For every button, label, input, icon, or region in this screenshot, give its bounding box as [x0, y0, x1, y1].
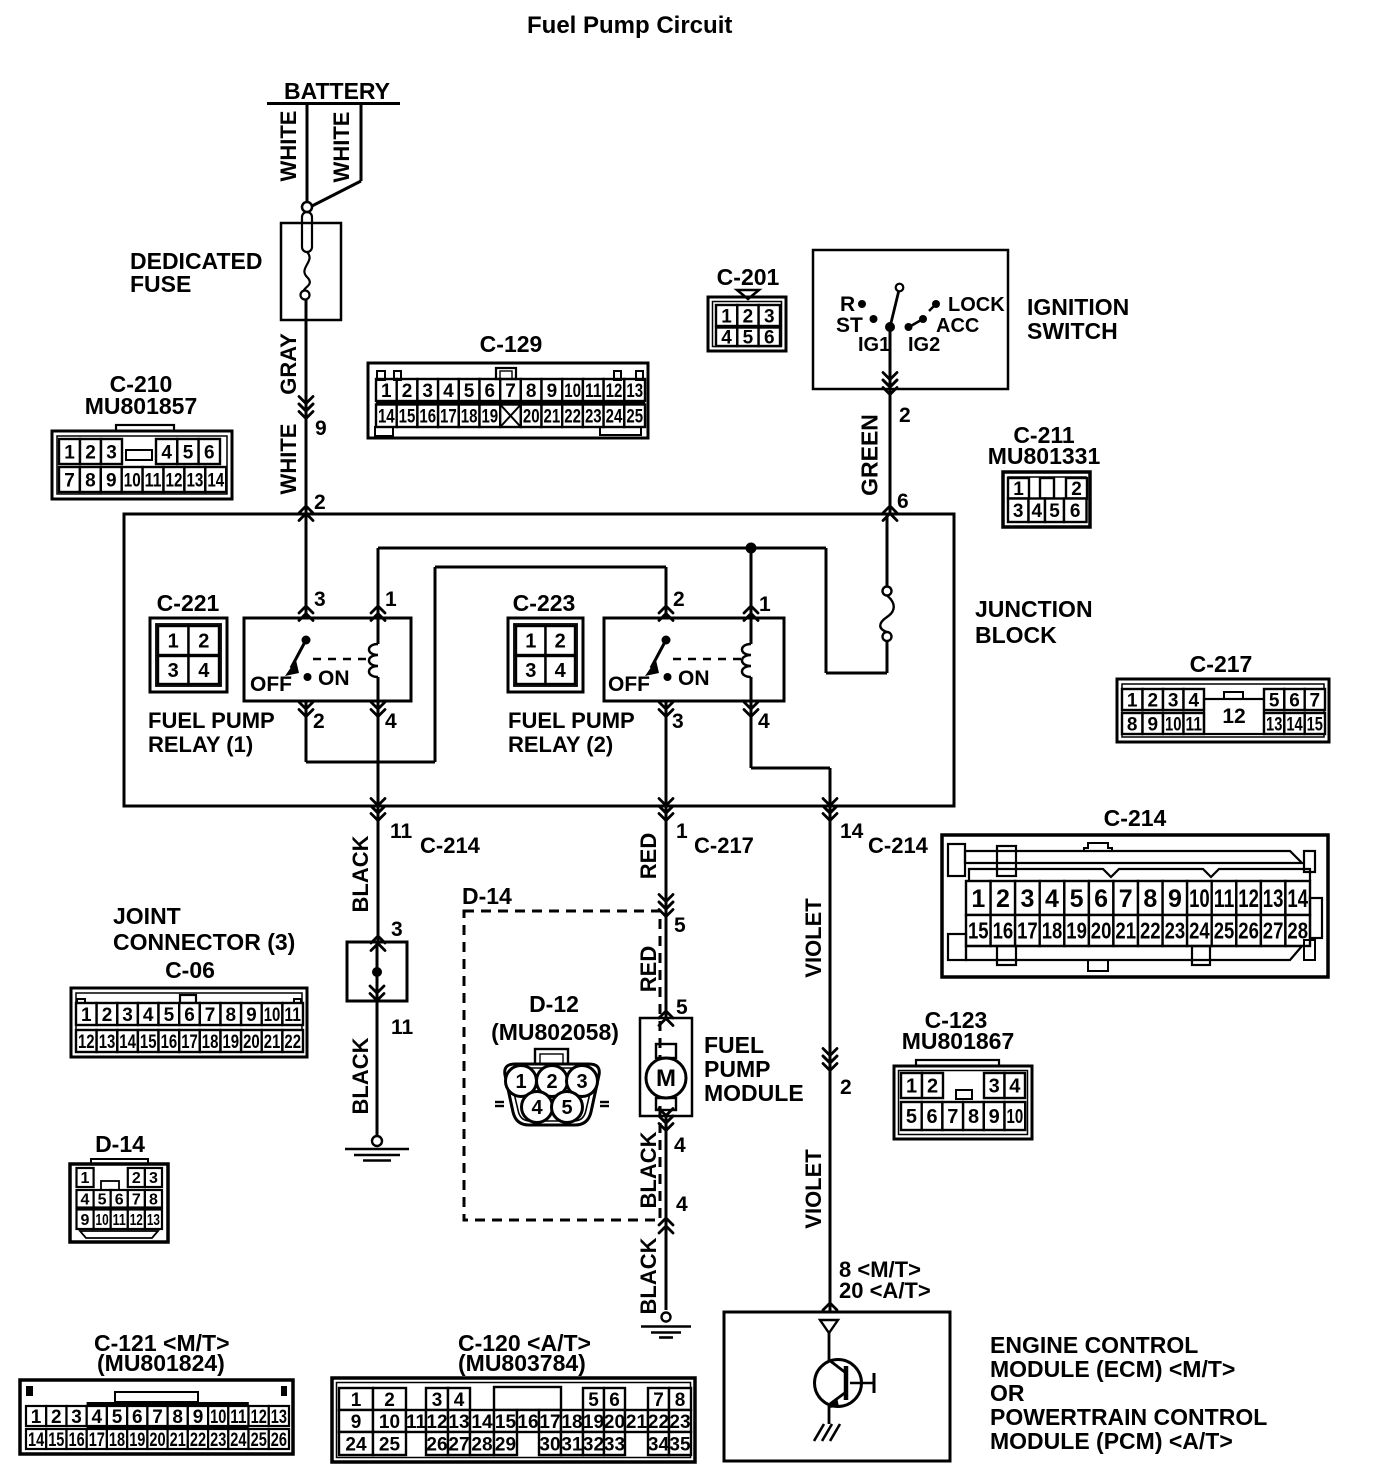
svg-text:ENGINE CONTROL: ENGINE CONTROL — [990, 1332, 1198, 1358]
svg-text:C-214: C-214 — [868, 833, 929, 858]
svg-text:13: 13 — [1263, 885, 1284, 913]
svg-text:4: 4 — [443, 381, 454, 402]
svg-text:21: 21 — [170, 1430, 187, 1451]
svg-text:3: 3 — [576, 1071, 587, 1093]
svg-text:10: 10 — [124, 470, 141, 491]
svg-text:1: 1 — [168, 631, 179, 653]
svg-text:28: 28 — [471, 1434, 492, 1455]
svg-text:BLACK: BLACK — [348, 1037, 373, 1114]
svg-text:11: 11 — [113, 1212, 126, 1229]
svg-text:5: 5 — [183, 442, 194, 463]
svg-text:R: R — [840, 293, 855, 316]
svg-text:11: 11 — [406, 1412, 427, 1433]
svg-text:22: 22 — [648, 1412, 669, 1433]
svg-text:33: 33 — [604, 1434, 625, 1455]
svg-text:2: 2 — [673, 588, 685, 611]
svg-text:2: 2 — [555, 631, 566, 653]
svg-text:12: 12 — [130, 1212, 143, 1229]
svg-text:1: 1 — [759, 593, 771, 616]
svg-text:16: 16 — [517, 1412, 538, 1433]
svg-text:(MU803784): (MU803784) — [458, 1350, 586, 1376]
svg-text:2: 2 — [1148, 690, 1159, 711]
svg-text:11: 11 — [1186, 714, 1203, 735]
svg-text:23: 23 — [669, 1412, 690, 1433]
svg-text:26: 26 — [271, 1430, 287, 1451]
svg-text:1: 1 — [676, 820, 688, 843]
svg-text:FUEL: FUEL — [704, 1032, 764, 1058]
svg-text:11: 11 — [391, 1016, 414, 1039]
svg-text:8: 8 — [526, 381, 537, 402]
svg-text:6: 6 — [485, 381, 496, 402]
svg-text:BLACK: BLACK — [636, 1131, 661, 1208]
svg-text:5: 5 — [464, 381, 475, 402]
svg-text:3: 3 — [122, 1005, 133, 1026]
svg-text:17: 17 — [1017, 918, 1038, 944]
svg-text:JUNCTION: JUNCTION — [975, 596, 1093, 622]
svg-text:16: 16 — [993, 918, 1014, 944]
svg-text:15: 15 — [399, 407, 416, 428]
svg-text:WHITE: WHITE — [276, 424, 301, 495]
svg-text:5: 5 — [1269, 690, 1280, 711]
svg-text:4: 4 — [758, 710, 770, 733]
svg-text:16: 16 — [161, 1032, 178, 1053]
svg-text:24: 24 — [345, 1434, 367, 1455]
svg-text:6: 6 — [764, 328, 775, 349]
svg-text:RED: RED — [636, 833, 661, 879]
svg-text:C-217: C-217 — [1190, 651, 1253, 677]
svg-text:2: 2 — [132, 1170, 141, 1187]
svg-text:11: 11 — [1214, 885, 1235, 913]
svg-text:BATTERY: BATTERY — [284, 78, 390, 104]
svg-text:GREEN: GREEN — [856, 414, 882, 496]
svg-text:10: 10 — [1189, 885, 1210, 913]
svg-text:ACC: ACC — [936, 315, 979, 337]
svg-text:4: 4 — [1189, 690, 1200, 711]
svg-text:IG1: IG1 — [858, 334, 890, 356]
svg-text:3: 3 — [1013, 501, 1024, 522]
svg-text:8: 8 — [172, 1407, 183, 1428]
svg-text:31: 31 — [561, 1434, 583, 1455]
svg-text:24: 24 — [230, 1430, 247, 1451]
svg-text:3: 3 — [989, 1076, 1000, 1098]
svg-text:3: 3 — [168, 660, 179, 682]
svg-text:6: 6 — [1289, 690, 1300, 711]
svg-text:2: 2 — [102, 1005, 113, 1026]
svg-text:MU801867: MU801867 — [902, 1028, 1015, 1054]
svg-text:13: 13 — [271, 1407, 287, 1428]
svg-text:6: 6 — [184, 1005, 195, 1026]
svg-text:13: 13 — [99, 1032, 116, 1053]
svg-text:FUEL PUMP: FUEL PUMP — [148, 708, 275, 733]
svg-text:18: 18 — [1042, 918, 1063, 944]
svg-text:5: 5 — [676, 996, 688, 1019]
svg-text:D-14: D-14 — [95, 1131, 145, 1157]
svg-text:2: 2 — [743, 306, 754, 327]
svg-text:13: 13 — [626, 381, 643, 402]
svg-text:OR: OR — [990, 1380, 1025, 1406]
svg-text:10: 10 — [96, 1212, 109, 1229]
svg-text:4: 4 — [676, 1193, 688, 1216]
svg-text:2: 2 — [402, 381, 413, 402]
svg-text:7: 7 — [1310, 690, 1321, 711]
svg-text:1: 1 — [1127, 690, 1138, 711]
svg-text:RED: RED — [636, 946, 661, 992]
svg-text:5: 5 — [1070, 885, 1084, 913]
svg-text:10: 10 — [564, 381, 581, 402]
svg-text:7: 7 — [947, 1106, 958, 1128]
svg-text:9: 9 — [106, 470, 117, 491]
svg-text:(MU802058): (MU802058) — [491, 1019, 619, 1045]
svg-text:MU801331: MU801331 — [988, 443, 1101, 469]
svg-text:C-221: C-221 — [157, 590, 220, 616]
svg-text:IG2: IG2 — [908, 334, 940, 356]
svg-text:8: 8 — [675, 1390, 686, 1411]
svg-text:18: 18 — [109, 1430, 125, 1451]
svg-text:1: 1 — [971, 885, 985, 913]
svg-text:4: 4 — [454, 1390, 465, 1411]
svg-text:23: 23 — [1165, 918, 1186, 944]
svg-text:12: 12 — [1238, 885, 1259, 913]
svg-text:18: 18 — [461, 407, 478, 428]
svg-text:MU801857: MU801857 — [85, 393, 198, 419]
svg-text:14: 14 — [378, 407, 395, 428]
svg-text:M: M — [656, 1065, 676, 1092]
svg-text:11: 11 — [145, 470, 162, 491]
svg-text:5: 5 — [588, 1390, 599, 1411]
svg-text:21: 21 — [544, 407, 561, 428]
svg-text:22: 22 — [284, 1032, 301, 1053]
svg-text:3: 3 — [525, 660, 536, 682]
svg-text:20: 20 — [1091, 918, 1112, 944]
svg-text:35: 35 — [669, 1434, 691, 1455]
svg-text:19: 19 — [223, 1032, 240, 1053]
svg-text:15: 15 — [1307, 714, 1324, 735]
svg-text:10: 10 — [210, 1407, 226, 1428]
svg-text:15: 15 — [48, 1430, 65, 1451]
svg-text:4: 4 — [1045, 885, 1059, 913]
svg-text:3: 3 — [149, 1170, 158, 1187]
svg-text:14: 14 — [471, 1412, 493, 1433]
svg-text:10: 10 — [379, 1412, 400, 1433]
svg-text:D-14: D-14 — [462, 883, 512, 909]
svg-text:4: 4 — [1009, 1076, 1021, 1098]
svg-text:PUMP: PUMP — [704, 1056, 770, 1082]
svg-text:BLOCK: BLOCK — [975, 622, 1057, 648]
svg-text:VIOLET: VIOLET — [801, 898, 826, 978]
svg-text:C-06: C-06 — [165, 957, 215, 983]
svg-text:2: 2 — [996, 885, 1010, 913]
svg-text:1: 1 — [515, 1071, 526, 1093]
svg-text:12: 12 — [251, 1407, 267, 1428]
svg-text:29: 29 — [495, 1434, 516, 1455]
svg-text:5: 5 — [743, 328, 754, 349]
svg-text:OFF: OFF — [250, 673, 292, 696]
svg-text:1: 1 — [81, 1170, 90, 1187]
svg-text:12: 12 — [606, 381, 623, 402]
svg-text:26: 26 — [1238, 918, 1259, 944]
svg-text:6: 6 — [927, 1106, 938, 1128]
svg-text:VIOLET: VIOLET — [801, 1149, 826, 1229]
svg-text:IGNITION: IGNITION — [1027, 294, 1129, 320]
svg-text:7: 7 — [152, 1407, 163, 1428]
svg-text:C-129: C-129 — [480, 331, 543, 357]
svg-text:23: 23 — [585, 407, 602, 428]
svg-text:14: 14 — [1286, 714, 1303, 735]
svg-text:6: 6 — [1094, 885, 1108, 913]
svg-text:8: 8 — [968, 1106, 979, 1128]
svg-text:1: 1 — [351, 1390, 362, 1411]
svg-text:1: 1 — [721, 306, 732, 327]
svg-text:19: 19 — [129, 1430, 145, 1451]
svg-text:C-214: C-214 — [1104, 805, 1167, 831]
svg-text:2: 2 — [927, 1076, 938, 1098]
svg-text:9: 9 — [193, 1407, 204, 1428]
svg-text:24: 24 — [1189, 918, 1210, 944]
svg-text:3: 3 — [314, 588, 326, 611]
svg-text:JOINT: JOINT — [113, 903, 181, 929]
svg-text:7: 7 — [653, 1390, 664, 1411]
svg-text:6: 6 — [897, 490, 909, 513]
svg-text:14: 14 — [119, 1032, 136, 1053]
svg-text:11: 11 — [390, 820, 413, 843]
svg-text:7: 7 — [132, 1192, 141, 1209]
svg-text:3: 3 — [672, 710, 684, 733]
svg-text:C-214: C-214 — [420, 833, 481, 858]
svg-text:C-223: C-223 — [513, 590, 576, 616]
svg-text:22: 22 — [564, 407, 581, 428]
svg-text:3: 3 — [71, 1407, 82, 1428]
svg-text:1: 1 — [81, 1005, 92, 1026]
svg-text:1: 1 — [381, 381, 392, 402]
svg-text:5: 5 — [1049, 501, 1060, 522]
svg-text:11: 11 — [284, 1005, 301, 1026]
svg-text:23: 23 — [210, 1430, 226, 1451]
svg-text:3: 3 — [764, 306, 775, 327]
svg-text:2: 2 — [51, 1407, 62, 1428]
svg-text:2: 2 — [314, 491, 326, 514]
svg-text:6: 6 — [609, 1390, 620, 1411]
svg-text:3: 3 — [391, 918, 403, 941]
svg-text:4: 4 — [674, 1134, 686, 1157]
svg-text:10: 10 — [1007, 1106, 1024, 1128]
svg-text:2: 2 — [840, 1076, 852, 1099]
svg-text:MODULE (ECM) <M/T>: MODULE (ECM) <M/T> — [990, 1356, 1235, 1382]
svg-text:ON: ON — [318, 667, 350, 690]
svg-text:12: 12 — [166, 470, 183, 491]
svg-text:10: 10 — [1165, 714, 1182, 735]
svg-text:22: 22 — [190, 1430, 206, 1451]
svg-text:4: 4 — [1032, 501, 1043, 522]
svg-text:SWITCH: SWITCH — [1027, 318, 1118, 344]
svg-text:3: 3 — [1168, 690, 1179, 711]
svg-text:7: 7 — [1119, 885, 1133, 913]
svg-text:26: 26 — [426, 1434, 447, 1455]
svg-text:MODULE: MODULE — [704, 1080, 804, 1106]
svg-text:MODULE (PCM) <A/T>: MODULE (PCM) <A/T> — [990, 1428, 1233, 1454]
svg-text:25: 25 — [1214, 918, 1235, 944]
svg-text:C-201: C-201 — [717, 264, 780, 290]
svg-text:4: 4 — [531, 1097, 543, 1119]
svg-text:19: 19 — [481, 407, 498, 428]
svg-text:11: 11 — [585, 381, 602, 402]
svg-text:9: 9 — [1168, 885, 1182, 913]
svg-text:19: 19 — [1066, 918, 1087, 944]
svg-text:D-12: D-12 — [529, 991, 579, 1017]
svg-text:2: 2 — [1071, 479, 1082, 500]
svg-text:FUEL PUMP: FUEL PUMP — [508, 708, 635, 733]
svg-text:2: 2 — [198, 631, 209, 653]
svg-text:20: 20 — [149, 1430, 165, 1451]
svg-text:8: 8 — [1143, 885, 1157, 913]
svg-text:21: 21 — [1115, 918, 1136, 944]
svg-text:9: 9 — [246, 1005, 257, 1026]
svg-text:17: 17 — [440, 407, 457, 428]
svg-text:1: 1 — [525, 631, 536, 653]
svg-text:13: 13 — [1266, 714, 1282, 735]
svg-text:6: 6 — [132, 1407, 143, 1428]
svg-text:BLACK: BLACK — [636, 1237, 661, 1314]
svg-text:9: 9 — [1148, 714, 1159, 735]
svg-text:27: 27 — [1263, 918, 1284, 944]
svg-text:1: 1 — [1013, 479, 1024, 500]
svg-text:9: 9 — [315, 417, 327, 440]
svg-text:30: 30 — [539, 1434, 560, 1455]
svg-text:20: 20 — [604, 1412, 625, 1433]
svg-text:6: 6 — [204, 442, 215, 463]
svg-text:4: 4 — [385, 710, 397, 733]
svg-text:5: 5 — [906, 1106, 917, 1128]
svg-text:5: 5 — [164, 1005, 175, 1026]
svg-text:3: 3 — [432, 1390, 443, 1411]
svg-text:4: 4 — [198, 660, 210, 682]
svg-text:4: 4 — [92, 1407, 103, 1428]
svg-text:(MU801824): (MU801824) — [97, 1350, 225, 1376]
svg-text:14: 14 — [840, 820, 864, 843]
svg-text:22: 22 — [1140, 918, 1161, 944]
svg-text:32: 32 — [583, 1434, 604, 1455]
svg-text:27: 27 — [448, 1434, 469, 1455]
svg-text:RELAY (2): RELAY (2) — [508, 732, 613, 757]
svg-text:8: 8 — [1127, 714, 1138, 735]
svg-text:4: 4 — [81, 1192, 90, 1209]
svg-text:15: 15 — [968, 918, 989, 944]
svg-text:2: 2 — [85, 442, 96, 463]
svg-text:17: 17 — [89, 1430, 105, 1451]
svg-text:21: 21 — [626, 1412, 648, 1433]
svg-text:6: 6 — [115, 1192, 124, 1209]
svg-text:9: 9 — [547, 381, 558, 402]
svg-text:9: 9 — [351, 1412, 362, 1433]
svg-text:34: 34 — [648, 1434, 670, 1455]
svg-text:24: 24 — [606, 407, 623, 428]
svg-text:13: 13 — [448, 1412, 469, 1433]
svg-text:20: 20 — [243, 1032, 260, 1053]
svg-text:LOCK: LOCK — [948, 294, 1005, 316]
svg-text:POWERTRAIN CONTROL: POWERTRAIN CONTROL — [990, 1404, 1267, 1430]
svg-text:4: 4 — [161, 442, 172, 463]
svg-text:16: 16 — [419, 407, 436, 428]
svg-text:7: 7 — [505, 381, 516, 402]
svg-text:1: 1 — [906, 1076, 917, 1098]
svg-text:ON: ON — [678, 667, 710, 690]
svg-text:1: 1 — [31, 1407, 42, 1428]
svg-text:21: 21 — [264, 1032, 281, 1053]
svg-text:20: 20 — [523, 407, 540, 428]
svg-text:BLACK: BLACK — [348, 835, 373, 912]
svg-text:2: 2 — [546, 1071, 557, 1093]
svg-text:9: 9 — [81, 1212, 90, 1229]
svg-text:12: 12 — [1222, 705, 1245, 728]
svg-text:WHITE: WHITE — [276, 111, 301, 182]
svg-text:16: 16 — [69, 1430, 85, 1451]
svg-text:5: 5 — [561, 1097, 572, 1119]
svg-text:GRAY: GRAY — [276, 333, 301, 395]
svg-text:2: 2 — [384, 1390, 395, 1411]
svg-text:5: 5 — [112, 1407, 123, 1428]
svg-text:15: 15 — [140, 1032, 157, 1053]
svg-text:8: 8 — [149, 1192, 158, 1209]
svg-text:4: 4 — [721, 328, 732, 349]
svg-text:9: 9 — [989, 1106, 1000, 1128]
svg-text:11: 11 — [230, 1407, 247, 1428]
svg-text:5: 5 — [98, 1192, 107, 1209]
svg-text:2: 2 — [899, 404, 911, 427]
svg-text:25: 25 — [251, 1430, 268, 1451]
svg-text:25: 25 — [626, 407, 643, 428]
svg-text:12: 12 — [78, 1032, 95, 1053]
svg-text:3: 3 — [422, 381, 433, 402]
svg-text:18: 18 — [561, 1412, 582, 1433]
svg-text:13: 13 — [186, 470, 203, 491]
svg-text:RELAY (1): RELAY (1) — [148, 732, 253, 757]
svg-text:15: 15 — [495, 1412, 517, 1433]
svg-text:25: 25 — [379, 1434, 401, 1455]
svg-text:14: 14 — [28, 1430, 45, 1451]
svg-text:17: 17 — [181, 1032, 198, 1053]
svg-text:Fuel Pump Circuit: Fuel Pump Circuit — [527, 12, 732, 39]
svg-text:2: 2 — [313, 710, 325, 733]
svg-text:8: 8 — [226, 1005, 237, 1026]
svg-text:6: 6 — [1070, 501, 1081, 522]
svg-text:10: 10 — [264, 1005, 281, 1026]
svg-text:13: 13 — [147, 1212, 160, 1229]
svg-text:7: 7 — [64, 470, 75, 491]
svg-text:4: 4 — [143, 1005, 154, 1026]
svg-text:1: 1 — [64, 442, 75, 463]
svg-text:5: 5 — [674, 914, 686, 937]
svg-text:19: 19 — [583, 1412, 604, 1433]
svg-text:1: 1 — [385, 588, 397, 611]
svg-text:12: 12 — [426, 1412, 447, 1433]
svg-text:8: 8 — [85, 470, 96, 491]
svg-text:7: 7 — [205, 1005, 216, 1026]
svg-text:14: 14 — [207, 470, 224, 491]
svg-text:17: 17 — [539, 1412, 560, 1433]
svg-text:3: 3 — [1020, 885, 1034, 913]
svg-text:4: 4 — [555, 660, 567, 682]
svg-text:18: 18 — [202, 1032, 219, 1053]
svg-text:FUSE: FUSE — [130, 271, 191, 297]
svg-text:OFF: OFF — [608, 673, 650, 696]
svg-text:C-217: C-217 — [694, 833, 754, 858]
svg-text:CONNECTOR (3): CONNECTOR (3) — [113, 929, 295, 955]
svg-text:WHITE: WHITE — [329, 112, 354, 183]
svg-text:3: 3 — [106, 442, 117, 463]
svg-text:20 <A/T>: 20 <A/T> — [839, 1278, 931, 1303]
svg-text:14: 14 — [1287, 885, 1308, 913]
